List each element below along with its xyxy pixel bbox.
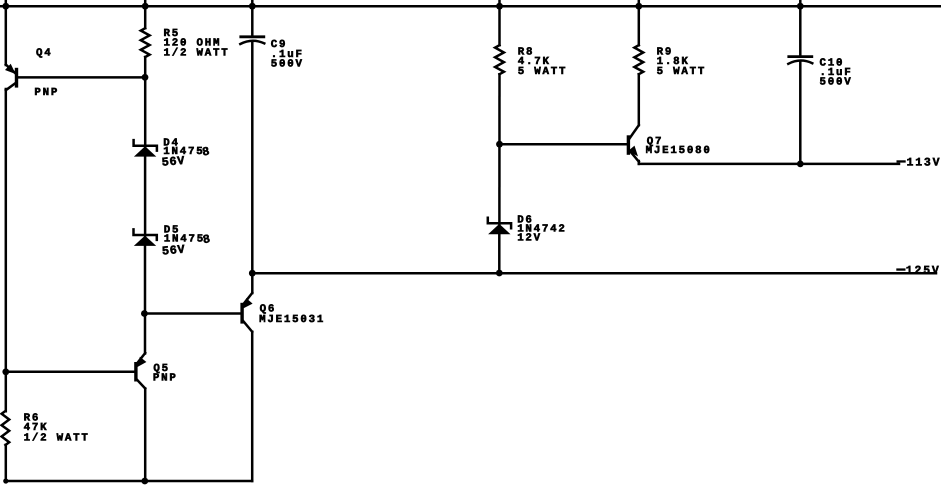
svg-text:12V: 12V	[517, 232, 542, 244]
wire node C to Q7 base	[500, 143, 627, 146]
svg-text:56V: 56V	[161, 243, 186, 259]
zener diode D4	[134, 146, 156, 156]
transistor Q5	[134, 353, 146, 389]
wire Q5 base from V1	[6, 371, 134, 374]
svg-text:1/2 WATT: 1/2 WATT	[24, 432, 90, 444]
resistor R5	[141, 28, 150, 57]
svg-text:500V: 500V	[820, 77, 853, 89]
node V4-top rail junction	[496, 3, 503, 10]
node D6/-125V junction	[496, 270, 503, 277]
node V1/Q5-base junction	[2, 368, 9, 375]
svg-text:113V: 113V	[907, 156, 941, 169]
node V6-top rail junction	[797, 3, 804, 10]
wire Q4 base to node A	[17, 76, 145, 79]
wire V1 left vertical lower	[5, 89, 8, 411]
svg-text:1/2 WATT: 1/2 WATT	[164, 47, 230, 59]
node B D5/Q6-base junction	[141, 310, 148, 317]
svg-text:5 WATT: 5 WATT	[657, 66, 707, 78]
svg-text:PNP: PNP	[153, 372, 178, 384]
transistor Q4	[5, 64, 18, 90]
svg-text:500V: 500V	[271, 58, 304, 70]
node V5-top rail junction	[635, 3, 642, 10]
node Q5-collector/bottom rail junction	[141, 478, 148, 485]
node C R8/Q7-base junction	[496, 141, 503, 148]
wire D6 to -125V rail	[498, 234, 501, 273]
wire C10 to -113V rail	[799, 61, 802, 164]
resistor R9	[634, 45, 643, 74]
node A R5/Q4/D4 junction	[142, 74, 149, 81]
bottom rail	[6, 480, 252, 483]
wire R9 to Q7 collector	[638, 74, 641, 125]
svg-text:5 WATT: 5 WATT	[518, 66, 568, 78]
wire V4 top stub	[498, 0, 501, 45]
capacitor C10	[789, 55, 812, 58]
svg-text:MJE15031: MJE15031	[259, 314, 325, 326]
svg-text:125V: 125V	[906, 265, 941, 278]
svg-text:8: 8	[201, 144, 211, 159]
transistor Q6	[240, 293, 252, 332]
svg-text:56V: 56V	[161, 154, 186, 170]
resistor R6	[2, 411, 10, 445]
wire D4 to D5	[144, 156, 147, 235]
wire Q7 emitter corner	[638, 161, 641, 164]
transistor Q7	[627, 125, 639, 161]
node V2-top rail junction	[142, 3, 149, 10]
capacitor C9	[241, 35, 264, 38]
svg-text:MJE15080: MJE15080	[646, 145, 712, 157]
wire V2 top stub	[144, 0, 147, 28]
node V1-top rail junction	[2, 3, 9, 10]
zener diode D6	[488, 224, 510, 234]
wire D5 to Q5	[144, 246, 147, 354]
svg-text:PNP: PNP	[34, 87, 59, 99]
wire R6 to bottom rail	[5, 445, 8, 481]
resistor R8	[495, 45, 504, 74]
wire V3 top stub	[251, 0, 254, 37]
wire V5 top stub	[638, 0, 641, 45]
zener diode D5	[134, 236, 156, 246]
-125V rail	[252, 272, 936, 275]
svg-text:8: 8	[202, 232, 212, 247]
wire V1 left vertical upper	[5, 0, 8, 65]
wire V3 to Q6 emitter	[251, 273, 254, 293]
node C10/-113V junction	[797, 161, 804, 168]
node V3/-125V junction	[249, 270, 256, 277]
wire C9 to -125V rail	[251, 42, 254, 274]
wire V6 top stub	[799, 0, 802, 57]
wire Q5 collector down	[144, 389, 147, 482]
node V3-top rail junction	[249, 3, 256, 10]
net label -113V	[897, 160, 906, 162]
wire node B to Q6 base	[144, 312, 240, 315]
node bottom-left corner	[3, 478, 8, 483]
wire R8 to D6	[498, 74, 501, 224]
-113V rail	[639, 163, 899, 166]
top supply rail	[0, 5, 941, 8]
net label -125V	[896, 268, 905, 270]
svg-text:Q4: Q4	[36, 47, 53, 59]
wire R5 to node A	[144, 57, 147, 146]
wire Q6 collector down	[251, 332, 254, 481]
